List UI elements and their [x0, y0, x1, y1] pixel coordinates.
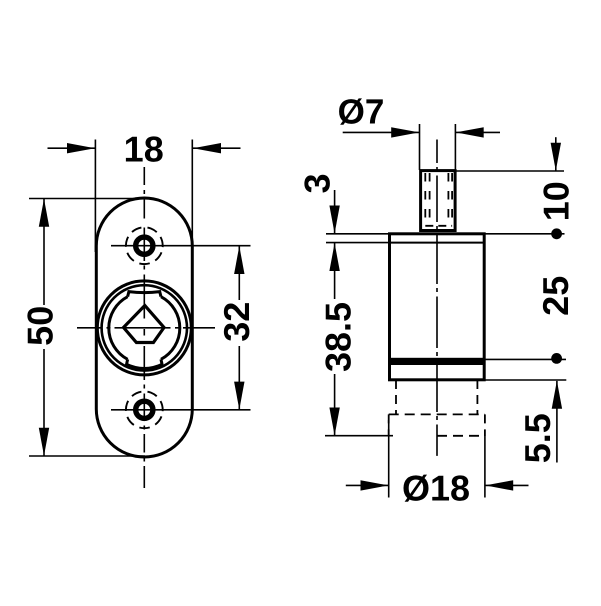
svg-text:Ø7: Ø7 [338, 93, 385, 132]
dim 3: bottom extension line [326, 242, 390, 244]
svg-text:38.5: 38.5 [318, 302, 359, 372]
screw hole bottom [136, 401, 153, 418]
svg-text:Ø18: Ø18 [402, 467, 470, 508]
dim 50: dimension line with arrows [39, 199, 49, 456]
dim 50: bottom extension line [29, 455, 145, 457]
svg-text:5.5: 5.5 [517, 413, 558, 463]
dim O7: right extension line [454, 124, 456, 170]
ext line body bottom right [485, 379, 566, 381]
svg-text:32: 32 [216, 302, 257, 342]
dim O18: left arrow [346, 480, 389, 490]
plunger outline [421, 171, 456, 231]
dim 32: bottom extension line [111, 409, 251, 411]
plunger hidden thread line 4 [451, 173, 453, 226]
dim 10: dot at body top [551, 228, 562, 239]
dim 18: left extension line [94, 140, 96, 253]
horizontal centerline of cylinder [77, 327, 215, 329]
dim 25: dot at groove [551, 353, 562, 364]
cam ring left arc [109, 297, 128, 360]
dim 38.5: bottom extension line [325, 435, 393, 437]
cam ring right arc [161, 297, 180, 360]
dim 18: right extension line [191, 140, 193, 253]
dim 3: top extension line [326, 233, 390, 235]
screw hole bottom dashed circle [121, 386, 169, 434]
dim O7: left arrow [343, 127, 420, 137]
dim O7: right arrow [456, 127, 500, 137]
vertical centerline of body [436, 140, 438, 456]
dim 50: top extension line [29, 198, 145, 200]
ext line groove right [485, 358, 567, 360]
dim O18: right arrow [485, 480, 528, 490]
screw hole top dashed circle [121, 222, 169, 270]
svg-text:25: 25 [535, 276, 576, 316]
dim 18: left arrow [48, 143, 96, 153]
vertical centerline of plate [143, 167, 145, 488]
dim 18: right arrow [193, 143, 241, 153]
dim 10: arrow down [551, 137, 561, 171]
ext line plunger top right [455, 170, 564, 172]
hidden hole bottom line [389, 413, 485, 415]
dim O7: left extension line [419, 124, 421, 170]
dim 3: upper arrow [329, 190, 339, 234]
svg-text:50: 50 [20, 306, 61, 346]
cam ring bottom tab [127, 359, 163, 368]
dim 32: top extension line [111, 245, 251, 247]
hidden insert outline left [395, 380, 397, 414]
hidden body edge left below [388, 414, 390, 436]
cylinder outer circle [97, 281, 191, 375]
plunger hidden thread line 3 [447, 173, 449, 226]
dim O18: left extension line [388, 420, 390, 498]
dim 5.5: arrow up [552, 381, 562, 463]
cylinder second circle [102, 285, 187, 370]
hidden bottom line 2 [437, 435, 485, 437]
plunger hidden thread line 2 [429, 173, 431, 226]
dim 32: dimension line with arrows [234, 246, 244, 410]
svg-text:18: 18 [124, 128, 164, 169]
svg-text:3: 3 [296, 173, 337, 193]
plate outline (obround) [96, 198, 192, 457]
plunger hidden thread line 1 [424, 173, 426, 226]
dim 38.5: dimension line with arrows [329, 243, 339, 436]
body outline [390, 234, 485, 380]
plunger hidden hole bottom [425, 225, 452, 227]
body groove band [391, 358, 484, 365]
square spindle hole (diamond) [124, 306, 165, 343]
screw hole top [136, 237, 153, 254]
cam ring top tab [128, 292, 161, 297]
body collar line [390, 242, 485, 244]
ext line body top right [485, 233, 565, 235]
hidden insert outline right [476, 380, 478, 414]
hidden body edge right below [484, 414, 486, 436]
svg-text:10: 10 [536, 181, 577, 221]
dim O18: right extension line [484, 436, 486, 498]
